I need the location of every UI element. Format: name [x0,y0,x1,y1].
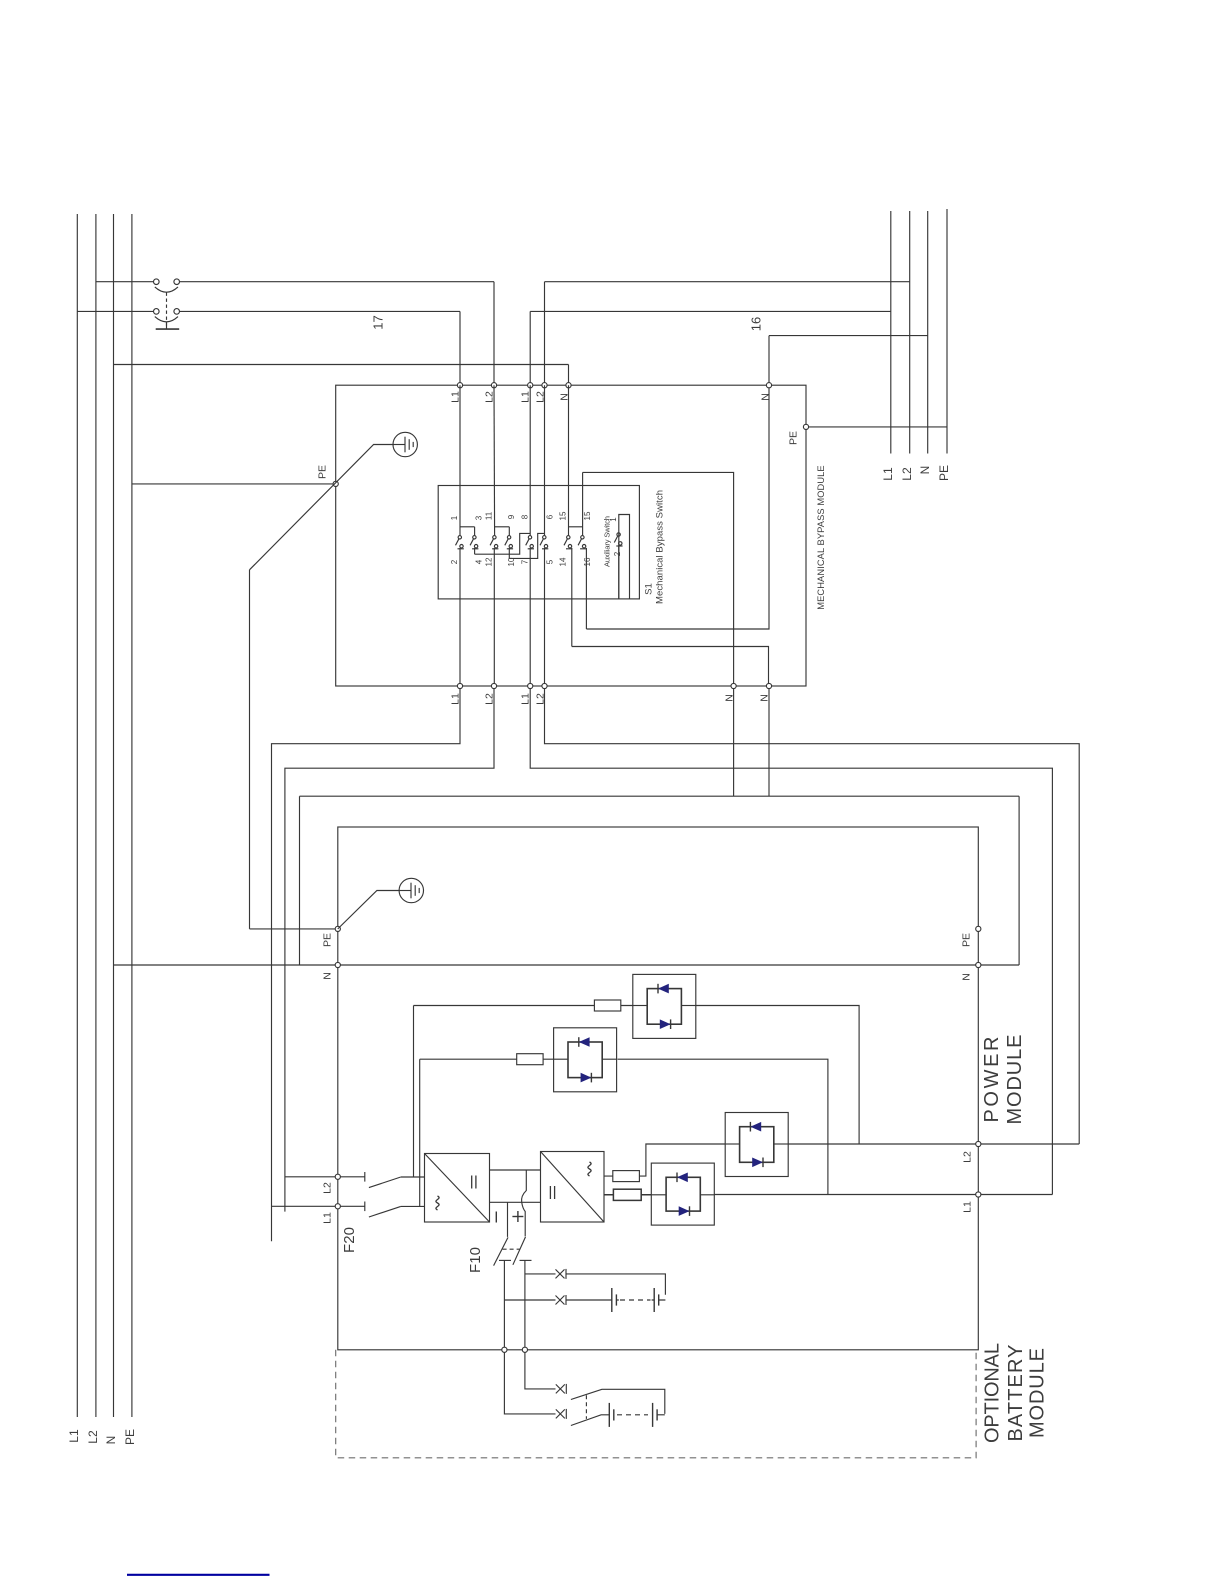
wire N bus left drop [299,796,301,965]
S1 pole 7 upper wire [568,385,570,535]
dashed between cells battery module [617,1414,648,1416]
PM PE terminal right [976,926,981,931]
wire battery module minus drop [504,1352,555,1414]
wire breaker pole 2 to bypass L1 drop [180,310,460,312]
wire S1 crossover pole2 to pole5 [475,533,531,554]
wire pole8 bottom to N2 top riser [586,388,769,629]
wire pole7 bottom to N2 bottom terminal [572,647,769,684]
static bypass L1 line [420,1059,828,1194]
S1 pole 8 contact [578,536,586,629]
wire L2 into PM [285,1176,335,1178]
static bypass L1 riser [419,1059,421,1206]
S1 switch box [438,486,639,599]
S1 pole 3 upper wire [493,385,496,535]
wire input line PE [131,214,133,1417]
svg-text:1: 1 [450,515,459,520]
svg-text:7: 7 [520,559,529,564]
breaker Q1 pole 1 arc [155,287,178,292]
wire N bus right drop [1018,796,1020,965]
svg-text:4: 4 [474,559,483,564]
diode box B4 [651,1163,714,1225]
wire bypass L2 mid riser [544,282,546,383]
svg-text:10: 10 [507,557,516,566]
breaker F20 pole L2 [340,1172,424,1188]
battery module cell 1 [609,1403,614,1427]
wire N out run [769,335,928,337]
breaker Q1 actuator stem [166,322,168,329]
S1 pole pair 3-4 tick [495,526,510,528]
PM L1 terminal left [335,1204,340,1209]
S1 pole 1 upper wire [459,385,461,535]
svg-text:15: 15 [583,511,592,520]
S1 pole labels bottom row [450,557,592,566]
svg-text:S1: S1 [643,583,654,595]
fuse inverter L2 [613,1171,640,1182]
svg-text:17: 17 [371,315,386,329]
S1 pole pair 7-8 tick [569,526,583,528]
PM bottom battery terminal minus [502,1347,507,1352]
wire output line L1 [890,211,892,454]
svg-text:N: N [961,973,973,981]
bypass module box [336,385,806,686]
PM bottom battery terminal plus [522,1347,527,1352]
wire bypass PE out run [806,426,947,428]
S1 pole 6 upper wire [544,385,546,535]
breaker Q1 pole 1 contact circles [154,279,160,285]
svg-text:OPTIONAL: OPTIONAL [982,1343,1004,1443]
wire bypass L1 bottom to PM left [272,689,461,1242]
PM L2 terminal left [335,1174,340,1179]
bypass terminal L2 mid top [542,383,547,388]
label minus [495,1212,497,1223]
X mark plus row [556,1269,567,1279]
S1 pole pair 1-2 tick [460,526,475,528]
diode box B2 [554,1028,617,1092]
wire N2 bottom drop [768,689,770,797]
wire DC minus tap to F10 [507,1202,509,1237]
auxiliary switch contact [614,533,622,599]
wire L2 to breaker pole 1 [96,281,154,283]
S1 pole 4 contact [505,536,513,559]
bypass PE terminal [333,481,338,486]
wire PE in run [132,483,333,485]
svg-text:L2: L2 [962,1151,974,1163]
bypass bottom terminal L2 [491,683,496,688]
battery module minus blade [571,1415,609,1426]
S1 pole 4 stub [508,527,510,536]
svg-text:BATTERY: BATTERY [1005,1345,1027,1442]
blue underline [127,1574,270,1576]
diode box B3 [725,1113,788,1177]
wire bypass L2 in drop [493,282,495,383]
rectifier AC squiggle [436,1196,439,1210]
wire bypass PE diagonal [250,445,394,570]
svg-text:PE: PE [123,1429,137,1445]
S1 pole 1 contact [456,536,464,684]
svg-text:11: 11 [484,511,493,520]
label plus [512,1211,523,1222]
wire breaker pole 1 to bypass L2 drop [180,281,494,283]
bypass bottom terminal L1 [457,683,462,688]
wire PM N right to bus drop [981,964,1019,966]
battery module cell 2 [653,1403,658,1427]
earth symbol bypass [393,432,417,456]
wire PM N through line [340,964,975,966]
svg-text:Auxiliary Switch: Auxiliary Switch [603,516,612,567]
S1 pole 2 stub [474,527,476,536]
wire bypass L1 in drop [459,311,461,382]
wire output line L2 [909,211,911,454]
svg-text:F20: F20 [341,1227,358,1253]
svg-text:F10: F10 [467,1247,484,1273]
svg-text:L1: L1 [881,467,895,481]
rectifier U1 box [425,1154,490,1223]
svg-text:PE: PE [937,465,951,481]
PM battery minus row [504,1299,665,1301]
svg-text:MODULE: MODULE [1027,1348,1049,1438]
svg-text:N: N [104,1436,118,1445]
wire rectifier DC minus out [490,1201,541,1203]
svg-text:L1: L1 [67,1429,81,1443]
svg-text:L1: L1 [322,1212,334,1224]
battery cell 2 PM [654,1288,659,1312]
inverter DC bars [549,1186,551,1199]
rectifier diagonal [425,1154,490,1223]
bypass bottom terminal L1 mid [528,683,533,688]
svg-text:3: 3 [474,515,483,520]
PM L1 terminal right [976,1192,981,1197]
svg-text:16: 16 [749,317,764,331]
svg-text:5: 5 [545,559,554,564]
svg-text:N: N [760,393,772,401]
S1 contacts poles 1-8 [456,536,587,684]
bypass terminal L1 top [457,383,462,388]
switch F10 pole minus [494,1237,511,1265]
dashed between cells PM [620,1299,651,1301]
wire input line N [113,214,115,1417]
wire PM PE diagonal [338,891,399,929]
svg-text:L1: L1 [962,1201,974,1213]
svg-text:2: 2 [613,551,622,556]
breaker Q1 mechanical link dashed [166,293,168,327]
bypass terminal N top [566,383,571,388]
S1 pole 2 contact [470,536,478,555]
svg-text:6: 6 [545,514,554,519]
inverter diagonal [541,1152,605,1223]
S1 pole 5 upper wire [529,385,531,535]
bypass terminal N2 top [766,383,771,388]
wire bypass L1 mid bottom to PM right [530,689,1052,1195]
wire bypass N2 riser [768,336,770,383]
wire inverter out L1 [604,1189,651,1200]
wire bypass PE link down [249,570,251,929]
wire bypass L1 mid riser [529,311,531,382]
PM N terminal right [976,962,981,967]
wire DC plus tap to F10 with hop [522,1170,527,1236]
F10 mechanical link dashed [503,1248,520,1250]
battery module plus blade [571,1389,665,1414]
wire output line PE [946,209,948,454]
auxiliary switch rectangle [619,515,630,599]
svg-text:N: N [322,972,334,980]
PM battery plus row [525,1274,666,1295]
svg-text:12: 12 [484,557,493,566]
wire B4 to PM L1 terminal [714,1194,1052,1196]
static bypass L2 line [414,1006,860,1145]
PM N terminal left [335,962,340,967]
S1 pole 8 feed riser [582,472,584,535]
battery cell 1 PM [612,1288,617,1312]
wire S1 crossover pole4 to pole6 [509,533,544,558]
svg-text:8: 8 [520,514,529,519]
wire bypass L2 bottom to PM left [285,689,494,1212]
wire bypass L1 out run [530,310,891,312]
earth symbol PM [399,878,423,902]
wire L1 into PM [272,1205,336,1207]
bypass PE right terminal [803,424,808,429]
bypass terminal L2 top [491,383,496,388]
wire bypass L2 mid bottom to PM right [545,689,1080,1144]
wire pole8 top loop to N1 bottom terminal [583,472,734,683]
fuse L2 static [594,1000,620,1011]
fuse L1 static [517,1054,543,1065]
svg-text:PE: PE [317,465,329,479]
S1 pole labels top row [450,511,592,520]
S1 pole 5 contact [526,536,534,684]
wire N in drop to bypass [568,365,570,383]
svg-text:PE: PE [322,933,334,947]
wire N1 bottom drop [733,689,735,797]
wire output line N [927,211,929,454]
breaker Q1 pole 2 contact circles [154,309,160,315]
S1 pole 7 contact [564,536,572,647]
wire battery module loop close [657,1414,665,1416]
PM PE terminal left [335,926,340,931]
svg-text:2: 2 [450,559,459,564]
bypass bottom terminal N2 [766,683,771,688]
svg-text:POWER: POWER [981,1037,1003,1123]
wire PM PE link [250,928,336,930]
svg-text:MODULE: MODULE [1004,1035,1026,1125]
S1 pole 3 contact [490,536,498,684]
PM L2 terminal right [976,1141,981,1146]
wire F10 plus down to PM bottom [524,1260,526,1347]
svg-text:L2: L2 [322,1182,334,1194]
wire inverter out L2 [604,1144,725,1176]
switch F10 pole plus [513,1237,532,1265]
svg-text:14: 14 [558,557,567,566]
wire N bus horizontal [300,795,1020,797]
diode box B1 [633,974,696,1038]
battery module mechanical link dashed [585,1395,587,1419]
battery module dashed box [336,1350,976,1458]
X mark minus row [556,1295,567,1305]
breaker Q1 handle bar [156,328,180,330]
inverter AC squiggle [588,1162,591,1176]
svg-text:L2: L2 [86,1430,100,1444]
wire bypass L2 out run [545,281,910,283]
bypass bottom terminal N1 [731,683,736,688]
svg-text:N: N [918,466,932,475]
breaker F20 pole L1 [340,1202,424,1218]
wire input line L1 [76,214,78,1417]
wire B3 to PM L2 terminal [788,1143,1079,1145]
bypass bottom terminal L2 mid [542,683,547,688]
static bypass L2 riser [413,1006,415,1178]
bypass terminal L1 mid top [528,383,533,388]
rectifier DC bars [471,1176,473,1189]
wire F10 minus down to PM bottom [503,1260,505,1347]
svg-text:MECHANICAL BYPASS MODULE: MECHANICAL BYPASS MODULE [816,465,826,609]
svg-text:16: 16 [583,557,592,566]
wire N in run [114,364,569,366]
power module box [338,827,979,1350]
inverter U2 box [541,1152,605,1223]
breaker Q1 pole 2 arc [155,317,178,322]
svg-text:PE: PE [788,431,800,445]
wire input line L2 [95,214,97,1417]
svg-text:15: 15 [558,511,567,520]
wire N in to PM N terminal [114,964,336,966]
wire battery module plus drop [525,1352,556,1389]
wire rectifier DC plus out [490,1169,541,1171]
wire L1 to breaker pole 2 [77,310,153,312]
X mark battery minus [556,1409,567,1419]
X mark battery plus [556,1384,567,1394]
svg-text:Mechanical Bypass Switch: Mechanical Bypass Switch [654,490,665,604]
svg-text:9: 9 [507,514,516,519]
fuse inverter L1 [613,1189,641,1200]
svg-text:L2: L2 [900,467,914,481]
S1 pole 6 contact [540,536,548,684]
svg-text:PE: PE [961,933,973,947]
